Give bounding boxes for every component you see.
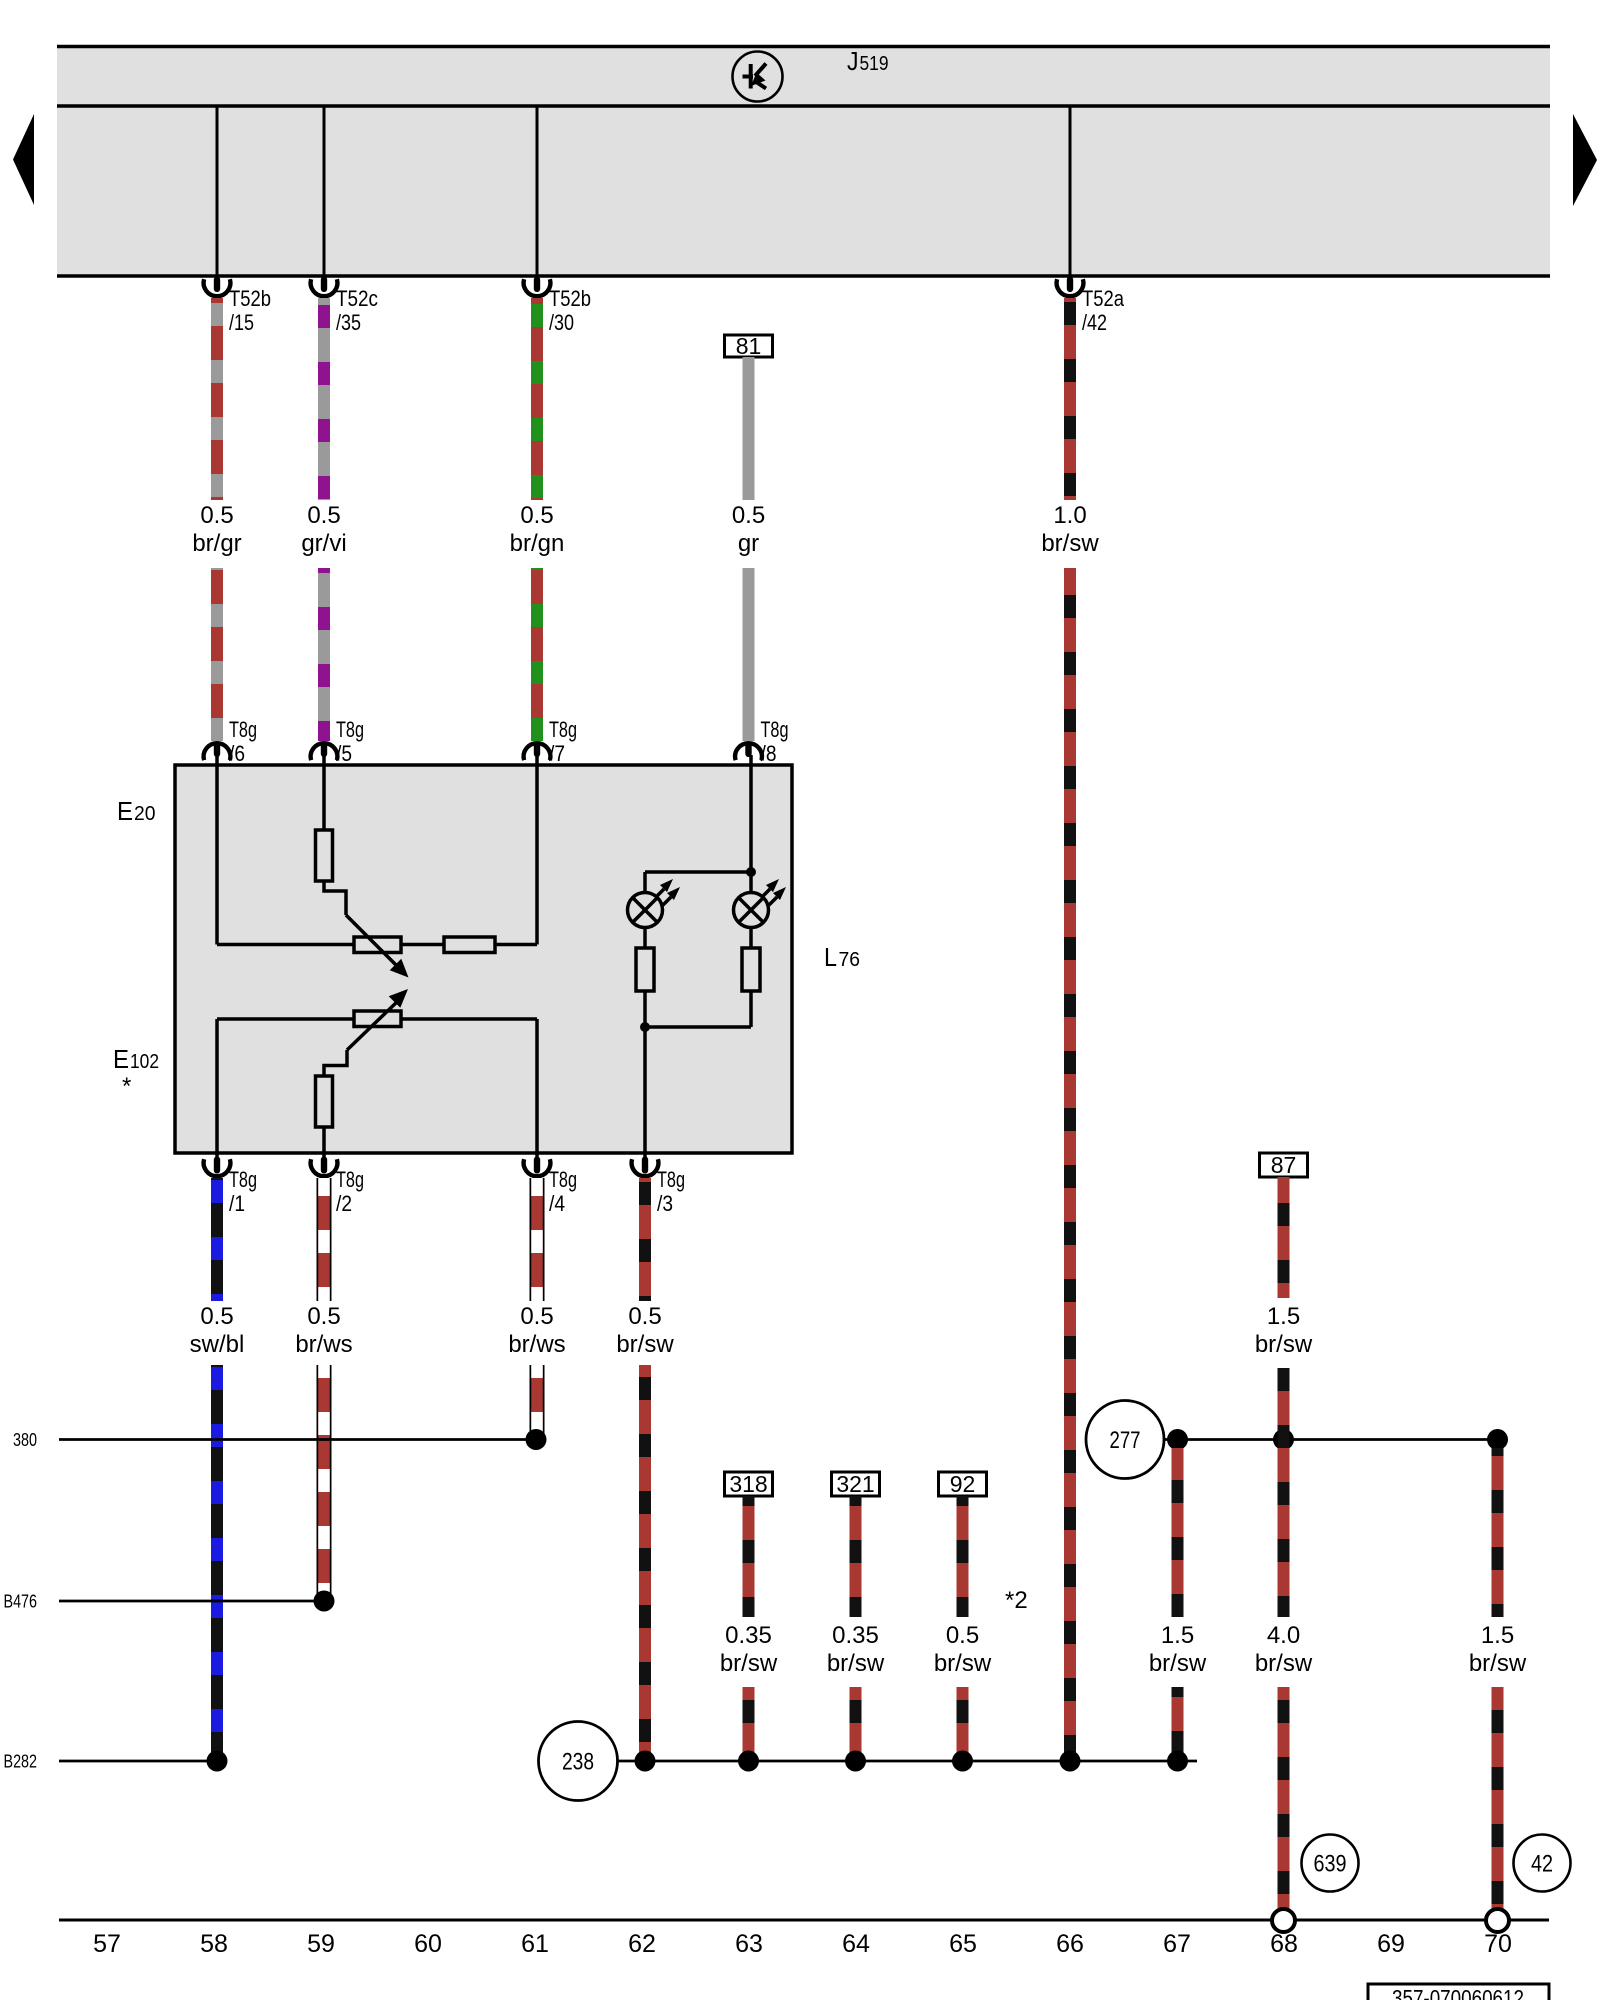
wire to pin /7 (495, 943, 537, 947)
wire 0.5 br/sw upper segment (pin 3) (639, 1178, 651, 1301)
connector T8g/3 (632, 1157, 685, 1217)
wire junction to pin /3 (643, 1027, 647, 1171)
wire pin /5 to resistor (322, 755, 326, 830)
svg-text:br/gr: br/gr (192, 530, 241, 557)
svg-text:T52c: T52c (336, 286, 378, 311)
wire 0.35 br/sw lower (318) (743, 1687, 755, 1761)
node 380 rail (13, 1429, 547, 1450)
wire pin /8 down (749, 755, 753, 872)
svg-text:T52a: T52a (1082, 286, 1125, 311)
svg-text:321: 321 (836, 1471, 874, 1497)
junction 67 on bus (1167, 1751, 1188, 1772)
svg-text:68: 68 (1270, 1930, 1298, 1958)
wire 1.5 br/sw (col 70) upper (1492, 1448, 1504, 1617)
wire stub T52a/42 (1069, 106, 1072, 276)
svg-text:T8g: T8g (336, 1167, 364, 1192)
svg-text:br/sw: br/sw (827, 1650, 885, 1677)
wire 0.35 br/sw upper (321) (850, 1496, 862, 1617)
wire 0.5 br/gn lower segment (531, 568, 543, 741)
junction 62 on bus (635, 1751, 656, 1772)
ground terminal col 70 (1486, 1909, 1509, 1932)
resistor E20 series (316, 830, 333, 881)
resistor lamp 2 (742, 948, 760, 991)
band inner border (57, 104, 1550, 108)
page arrow right (1573, 114, 1597, 206)
wire 0.5 br/ws upper segment (pin 4) (530, 1178, 545, 1301)
svg-text:T52b: T52b (229, 286, 271, 311)
svg-text:1.5: 1.5 (1161, 1622, 1194, 1649)
terminal box 318 (725, 1471, 773, 1497)
wire 0.35 br/sw lower (321) (850, 1687, 862, 1761)
wire stub T52b/30 (536, 106, 539, 276)
junction 63 on bus (738, 1751, 759, 1772)
band bottom border (57, 274, 1550, 278)
wire pin /6 into box (215, 755, 219, 945)
ground terminal col 68 (1272, 1909, 1295, 1932)
wire 0.5 gr lower segment (743, 568, 755, 741)
wire 1.5 br/sw (col 67) lower (1172, 1687, 1184, 1761)
terminal box 87 (1260, 1152, 1308, 1178)
junction node lamps top (746, 867, 756, 877)
svg-text:/5: /5 (336, 741, 352, 766)
svg-text:/15: /15 (229, 310, 254, 335)
ground symbol circle 42 (1514, 1835, 1571, 1892)
ground bus line (618, 1760, 1198, 1763)
svg-text:63: 63 (735, 1930, 763, 1958)
connector T8g/5 (311, 717, 364, 766)
control unit J519 band (13, 45, 1597, 277)
wire 0.35 br/sw upper (318) (743, 1496, 755, 1617)
svg-text:/30: /30 (549, 310, 574, 335)
svg-text:0.35: 0.35 (725, 1622, 772, 1649)
wire 0.5 gr upper segment (743, 357, 755, 500)
svg-text:T52b: T52b (549, 286, 591, 311)
connector T8g/7 (524, 717, 577, 766)
svg-text:1.5: 1.5 (1267, 1303, 1300, 1330)
terminal box 81 (725, 333, 773, 359)
component box E20/E102 (113, 755, 860, 1216)
svg-text:T8g: T8g (657, 1167, 685, 1192)
svg-text:57: 57 (93, 1930, 121, 1958)
wire between resistors (401, 943, 444, 947)
current track rail (59, 1919, 1549, 1922)
terminal box 92 (939, 1471, 987, 1497)
svg-text:gr: gr (738, 530, 759, 557)
svg-text:62: 62 (628, 1930, 656, 1958)
svg-text:519: 519 (860, 53, 889, 75)
svg-text:0.35: 0.35 (832, 1622, 879, 1649)
svg-text:0.5: 0.5 (946, 1622, 979, 1649)
svg-text:T8g: T8g (549, 717, 577, 742)
wire 0.5 sw/bl upper segment (211, 1178, 223, 1301)
wire 1.5 br/sw (col 70) lower to terminal (1492, 1687, 1504, 1909)
wire horizontal E20 (217, 943, 354, 947)
page arrow left (13, 114, 34, 205)
svg-text:B476: B476 (4, 1591, 38, 1612)
wire 0.5 gr/vi upper segment (318, 298, 330, 500)
wire pin /1 up to E102 track (215, 1019, 219, 1171)
svg-text:br/ws: br/ws (508, 1331, 565, 1358)
junction 64 on bus (845, 1751, 866, 1772)
svg-text:/42: /42 (1082, 310, 1107, 335)
wires top (192, 277, 1124, 1762)
svg-text:E: E (113, 1044, 129, 1074)
wire 0.5 br/ws upper segment (pin 2) (317, 1178, 332, 1301)
bottom rail (59, 1835, 1571, 2000)
svg-text:/6: /6 (229, 741, 245, 766)
wire pin /2 to resistor (322, 1127, 326, 1171)
connector T8g/2 (311, 1157, 364, 1217)
connector T52a/42 (1057, 277, 1125, 336)
wire 0.5 br/gn upper segment (531, 298, 543, 500)
wiper arrow E102 (347, 1000, 399, 1050)
ground symbol circle 639 (1302, 1835, 1359, 1892)
svg-text:4.0: 4.0 (1267, 1622, 1300, 1649)
indicator lamp 1 (628, 879, 681, 928)
svg-text:20: 20 (134, 803, 156, 825)
junction 70 on 277 line (1487, 1429, 1508, 1450)
wire horizontal E102 (217, 1017, 354, 1021)
wire 277 distribution line (1164, 1438, 1498, 1441)
connector T52b/30 (524, 277, 591, 336)
wire 1.5 br/sw (87) upper (1278, 1177, 1290, 1298)
svg-text:0.5: 0.5 (200, 502, 233, 529)
svg-text:64: 64 (842, 1930, 870, 1958)
svg-text:br/sw: br/sw (1255, 1650, 1313, 1677)
junction node lamps bottom (640, 1022, 650, 1032)
resistor E20 track left (354, 937, 401, 953)
svg-text:61: 61 (521, 1930, 549, 1958)
wire 1.0 br/sw upper segment (1064, 298, 1076, 500)
svg-text:639: 639 (1314, 1851, 1347, 1878)
resistor E102 track (354, 1011, 401, 1027)
wire 0.5 gr/vi lower segment (318, 568, 330, 741)
svg-text:0.5: 0.5 (628, 1303, 661, 1330)
ground connection circle 277 (1086, 1401, 1164, 1479)
svg-text:br/sw: br/sw (1469, 1650, 1527, 1677)
wiper arrow E20 (346, 915, 398, 967)
svg-text:76: 76 (839, 949, 861, 971)
wire stub T52b/15 (216, 106, 219, 276)
wiper jog E102 (324, 1050, 347, 1076)
bus-connection symbol circle (733, 52, 783, 102)
svg-text:br/sw: br/sw (934, 1650, 992, 1677)
svg-text:/3: /3 (657, 1191, 673, 1216)
wire 0.5 br/ws lower segment (pin 4) (530, 1365, 545, 1440)
ground connection circle 238 (539, 1722, 618, 1801)
junction 65 on bus (952, 1751, 973, 1772)
wire stub T52c/35 (323, 106, 326, 276)
svg-text:380: 380 (13, 1429, 37, 1450)
svg-text:/35: /35 (336, 310, 361, 335)
svg-text:81: 81 (736, 333, 762, 359)
svg-text:*: * (122, 1073, 131, 1100)
junction 67 on 277 line (1167, 1429, 1188, 1450)
svg-text:1.0: 1.0 (1053, 502, 1086, 529)
svg-text:B282: B282 (4, 1751, 38, 1772)
wiper jog E20 (324, 881, 346, 915)
svg-text:58: 58 (200, 1930, 228, 1958)
wire lamp bottom rail (645, 1025, 751, 1029)
wire resistor1 down (643, 991, 647, 1027)
svg-text:70: 70 (1484, 1930, 1512, 1958)
svg-text:T8g: T8g (229, 1167, 257, 1192)
wire to lamp 2 (749, 872, 753, 893)
svg-text:277: 277 (1110, 1427, 1141, 1454)
svg-text:0.5: 0.5 (307, 502, 340, 529)
svg-text:69: 69 (1377, 1930, 1405, 1958)
svg-text:65: 65 (949, 1930, 977, 1958)
wire 0.5 sw/bl lower segment (211, 1365, 223, 1761)
svg-text:66: 66 (1056, 1930, 1084, 1958)
wire 0.5 br/gr lower segment (211, 568, 223, 741)
svg-text:T8g: T8g (229, 717, 257, 742)
svg-text:br/sw: br/sw (720, 1650, 778, 1677)
svg-text:60: 60 (414, 1930, 442, 1958)
svg-text:br/ws: br/ws (295, 1331, 352, 1358)
svg-text:102: 102 (130, 1051, 159, 1073)
junction 68 on 277 line (1273, 1429, 1294, 1450)
wire 0.5 br/ws lower segment (pin 2) (317, 1365, 332, 1601)
svg-text:0.5: 0.5 (520, 502, 553, 529)
wire 0.5 br/sw lower (92) (957, 1687, 969, 1761)
junction 66 on bus (1060, 1751, 1081, 1772)
resistor E20 track right (444, 937, 495, 953)
svg-text:87: 87 (1271, 1152, 1297, 1178)
diagram number box (1368, 1984, 1549, 2000)
resistor E102 series (316, 1076, 333, 1127)
svg-text:/2: /2 (336, 1191, 352, 1216)
band top border (57, 45, 1550, 49)
wire 1.5 br/sw (col 67) upper (1172, 1448, 1184, 1617)
wire 0.5 br/gr upper segment (211, 298, 223, 500)
svg-text:0.5: 0.5 (732, 502, 765, 529)
wire to lamp 1 (643, 872, 647, 893)
svg-text:/1: /1 (229, 1191, 245, 1216)
svg-text:59: 59 (307, 1930, 335, 1958)
svg-text:/4: /4 (549, 1191, 565, 1216)
indicator lamp 2 (734, 879, 787, 928)
wire 4.0 br/sw lower to terminal (1278, 1687, 1290, 1909)
svg-text:E: E (117, 796, 133, 826)
svg-text:gr/vi: gr/vi (301, 530, 346, 557)
svg-text:67: 67 (1163, 1930, 1191, 1958)
connector T8g/1 (204, 1157, 257, 1217)
svg-text:J: J (847, 46, 859, 76)
svg-text:1.5: 1.5 (1481, 1622, 1514, 1649)
svg-text:0.5: 0.5 (200, 1303, 233, 1330)
wire lamp2 to resistor (749, 928, 753, 949)
wire 0.5 br/sw upper (92) (957, 1496, 969, 1617)
svg-text:42: 42 (1531, 1851, 1553, 1878)
resistor lamp 1 (636, 948, 654, 991)
node B282 rail (4, 1751, 228, 1772)
svg-text:br/sw: br/sw (1255, 1331, 1313, 1358)
svg-text:T8g: T8g (761, 717, 789, 742)
svg-text:T8g: T8g (336, 717, 364, 742)
wire to pin /4 (401, 1017, 537, 1021)
connector T8g/4 (524, 1157, 577, 1217)
svg-text:357-070060612: 357-070060612 (1392, 1985, 1524, 2000)
terminal box 321 (832, 1471, 880, 1497)
wire resistor2 down (749, 991, 753, 1027)
connector T52b/15 (204, 277, 271, 336)
svg-text:/7: /7 (549, 741, 565, 766)
connector T8g/6 (204, 717, 257, 766)
svg-text:br/sw: br/sw (616, 1331, 674, 1358)
svg-text:br/gn: br/gn (510, 530, 565, 557)
svg-text:*2: *2 (1005, 1587, 1028, 1614)
connector T52c/35 (311, 277, 378, 336)
svg-text:br/sw: br/sw (1041, 530, 1099, 557)
connector T8g/8 (735, 717, 788, 766)
wire br/sw (87) middle (1278, 1368, 1290, 1617)
wire lamp top rail (645, 870, 751, 874)
svg-text:0.5: 0.5 (307, 1303, 340, 1330)
wire lamp1 to resistor (643, 928, 647, 949)
svg-text:T8g: T8g (549, 1167, 577, 1192)
svg-text:/8: /8 (761, 741, 777, 766)
svg-text:92: 92 (950, 1471, 976, 1497)
svg-text:sw/bl: sw/bl (190, 1331, 245, 1358)
wire 0.5 br/sw lower segment (pin 3) (639, 1365, 651, 1761)
svg-text:L: L (824, 942, 837, 972)
node B476 rail (4, 1591, 335, 1612)
wire 1.0 br/sw long segment down to ground bus (1064, 568, 1076, 1761)
svg-text:318: 318 (729, 1471, 767, 1497)
svg-text:238: 238 (562, 1749, 594, 1776)
svg-text:0.5: 0.5 (520, 1303, 553, 1330)
lower wires (4, 1152, 1527, 1909)
svg-text:br/sw: br/sw (1149, 1650, 1207, 1677)
